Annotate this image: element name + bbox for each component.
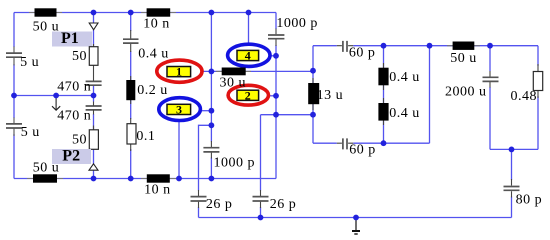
wire block left rail [312, 46, 314, 144]
junction (93.5,95.5) [91, 93, 97, 99]
svg-text:80 p: 80 p [516, 193, 543, 208]
svg-text:3: 3 [176, 102, 182, 116]
junction (93.5,12.5) [91, 10, 97, 16]
svg-text:10 n: 10 n [144, 183, 171, 198]
wire bottom bus [199, 217, 512, 219]
svg-text:50: 50 [72, 133, 87, 148]
wire right rail 0.48 [537, 46, 539, 150]
svg-text:4: 4 [245, 49, 251, 63]
junction (130.7,178.5) [128, 176, 134, 182]
label box P1 [52, 32, 92, 47]
svg-text:P1: P1 [61, 30, 79, 47]
inductor L 50u bottom [27, 174, 63, 182]
junction (383.5,143.2) [381, 140, 387, 146]
inductor 50u right [447, 42, 480, 50]
junction (179,178.5) [176, 176, 182, 182]
svg-text:26 p: 26 p [270, 197, 297, 212]
inductor 30u [216, 68, 251, 76]
wire 2000u branch [489, 46, 491, 150]
junction (248.5,12.5) [246, 10, 252, 16]
junction (56.1,95.5) [53, 93, 59, 99]
capacitor 26p no.1 [191, 190, 207, 208]
svg-text:30 u: 30 u [220, 76, 247, 91]
resistor 50 (P1) [89, 44, 98, 81]
svg-text:60 p: 60 p [349, 46, 376, 61]
wire box3 to bus [178, 121, 180, 179]
value labels [20, 16, 542, 212]
junction (93.5,178.5) [91, 176, 97, 182]
wire block bottom [313, 142, 430, 144]
element box 1 (red circled) [157, 60, 202, 82]
wire block middle branch [383, 46, 385, 144]
wire left rail [13, 13, 15, 179]
capacitor 1000p lower (x211) [203, 141, 219, 159]
wire y114.7 link [261, 114, 314, 116]
svg-text:0.4 u: 0.4 u [138, 47, 169, 62]
inductor 0.4u upper (block) [378, 63, 388, 90]
ground symbol [352, 218, 360, 234]
capacitor 2000u [483, 71, 499, 88]
svg-text:50 u: 50 u [33, 19, 60, 34]
wire column x211 [210, 13, 212, 179]
junction (383.5,45.7) [381, 43, 387, 49]
inductor L 10n top [141, 8, 176, 16]
junction (490,45.7) [487, 43, 493, 49]
svg-text:P2: P2 [62, 148, 80, 165]
element box 3 (blue circled) [159, 98, 201, 121]
svg-text:50 u: 50 u [33, 160, 60, 175]
wire 26p no.2 branch [260, 115, 262, 218]
arrow down at mid bus [52, 96, 60, 110]
port triangle P2 [89, 164, 98, 170]
svg-text:0.48: 0.48 [511, 89, 538, 104]
svg-text:5 u: 5 u [20, 55, 39, 70]
junction (429.5,45.7) [427, 43, 433, 49]
wire box4 stub [270, 55, 276, 57]
capacitor 470n lower [86, 106, 102, 110]
svg-text:2000 u: 2000 u [445, 85, 487, 100]
inductor 13u [308, 78, 319, 110]
element box 4 (blue circled) [228, 44, 270, 66]
svg-text:1000 p: 1000 p [276, 16, 318, 31]
inductor L 50u top [29, 8, 62, 16]
inductor 0.4u lower (block) [378, 98, 388, 125]
capacitor 60p top (series) [337, 41, 353, 52]
svg-text:470 n: 470 n [57, 108, 91, 123]
svg-text:26 p: 26 p [206, 197, 233, 212]
junction (211.4,12.5) [209, 10, 215, 16]
svg-text:0.2 u: 0.2 u [137, 83, 168, 98]
svg-text:50 u: 50 u [450, 51, 477, 66]
wire box2 stub [269, 95, 277, 97]
junction (211.4,71.4) [209, 69, 215, 75]
resistor 0.1 [127, 118, 136, 151]
capacitor 470n upper [86, 81, 102, 85]
svg-text:470 n: 470 n [57, 79, 91, 94]
wire 26p no.1 branch [199, 125, 212, 217]
wire column x276 [275, 13, 277, 179]
junction (211.4,178.5) [209, 176, 215, 182]
capacitor 26p no.2 [253, 190, 269, 208]
wire box4 feed [248, 13, 250, 45]
svg-text:0.4 u: 0.4 u [389, 106, 420, 121]
wire 0.4u column [130, 13, 132, 179]
inductor 0.2u [126, 76, 135, 104]
inductor L 10n bottom [141, 174, 176, 182]
label box P2 [52, 149, 91, 164]
port triangle P1 [89, 23, 98, 30]
wire lower-left bus [14, 178, 276, 180]
junction (313,114.7) [310, 112, 316, 118]
wire box1 stub and 30u wire [201, 70, 313, 72]
wire 80p branch [511, 149, 513, 217]
svg-text:1: 1 [176, 65, 182, 79]
svg-text:0.1: 0.1 [136, 129, 155, 144]
svg-text:13 u: 13 u [317, 88, 344, 103]
junction (276,114.7) [273, 112, 279, 118]
wire P column upper [93, 13, 95, 24]
svg-text:5 u: 5 u [21, 125, 40, 140]
svg-text:1000 p: 1000 p [214, 155, 256, 170]
junction (211.4,125.3) [209, 122, 215, 128]
capacitor C 5u top-left [6, 47, 22, 66]
wire P column mid [93, 30, 95, 130]
wire y149 link [490, 148, 538, 150]
wire top bus [14, 12, 276, 14]
junction (313,70.7) [310, 68, 316, 74]
capacitor 80p [504, 179, 520, 198]
svg-text:0.4 u: 0.4 u [389, 70, 420, 85]
wire box3 stub [200, 110, 211, 112]
element box 2 (red circled) [228, 85, 268, 105]
resistor 0.48 [533, 64, 542, 98]
junction (511.5,149.4) [509, 147, 515, 153]
capacitor 1000p top (x276) [268, 29, 284, 47]
junction (260.5,217.5) [258, 215, 264, 221]
wire P column lower [93, 149, 95, 178]
junction (130.7,12.5) [128, 10, 134, 16]
svg-text:10 n: 10 n [143, 16, 170, 31]
capacitor C 5u lower-left [6, 118, 22, 137]
wire block right rail [429, 46, 431, 144]
junction (356,217.5) [353, 215, 359, 221]
wire mid-left bus [14, 95, 94, 97]
junction (14,95.5) [11, 93, 17, 99]
resistor 50 (P2) [89, 102, 98, 150]
svg-text:50: 50 [72, 49, 87, 64]
wire block top [313, 45, 538, 47]
junction (211.4,110.7) [209, 108, 215, 114]
capacitor 60p bottom (series) [337, 138, 353, 149]
junction (276,55.8) [273, 53, 279, 59]
junction (276,95.8) [273, 93, 279, 99]
capacitor 0.4u (x130) [123, 30, 139, 52]
svg-text:60 p: 60 p [349, 142, 376, 157]
